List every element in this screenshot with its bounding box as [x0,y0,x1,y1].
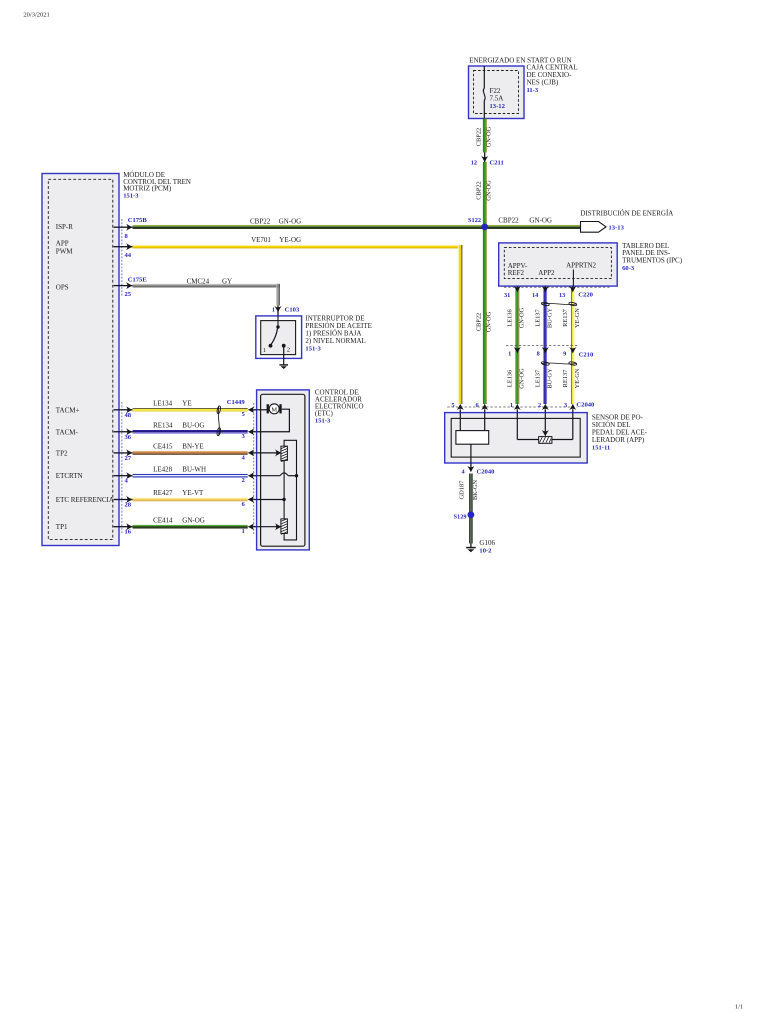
wire CBP22 GN-OG vertical (fuse to S122 to APP pin 6) [475,119,492,405]
potentiometer element TP1 (hatched) [275,519,288,535]
svg-text:3: 3 [564,402,567,409]
IPC box (TABLERO DEL PANEL DE INSTRUMENTOS) [499,242,683,286]
svg-text:G106: G106 [479,539,495,547]
potentiometer element TP2 (hatched) [275,446,288,462]
svg-text:REF2: REF2 [508,269,525,277]
svg-text:LE134: LE134 [153,399,173,407]
svg-text:YE: YE [182,399,191,407]
ETC potentiometer network [257,440,299,540]
twisted pair symbol LE134/RE134 [217,406,222,436]
wire LE136 GN-OG (IPC pin 31 to APP pin 1) [506,286,525,404]
svg-text:C175B: C175B [128,217,148,224]
connector C210 pins 1 8 9 [506,346,594,359]
connector C211 pin 12 [471,153,504,167]
wire GD187 BK-GN (APP pin 4 to ground G106) [459,474,479,544]
svg-text:C2040: C2040 [477,469,496,476]
svg-text:1: 1 [263,347,266,354]
oil pressure switch box (INTERRUPTOR DE PRESION DE ACEITE) [256,315,372,359]
wire CE415 BN-YE (PCM pin 27 to ETC pin 4) [114,443,257,462]
svg-text:GN-OG: GN-OG [182,516,205,524]
svg-text:2: 2 [287,347,290,354]
connector C103 pin 1 [272,306,300,317]
CJB box (CAJA CENTRAL DE CONEXIONES) [469,57,578,119]
svg-text:2: 2 [242,477,245,484]
svg-text:RE137: RE137 [562,308,569,327]
svg-text:BU-GY: BU-GY [546,368,553,389]
svg-text:C175E: C175E [128,277,148,284]
ground below oil pressure switch [279,347,288,369]
switch contacts inside oil pressure switch [263,316,290,354]
svg-text:LE137: LE137 [534,309,541,327]
connector C220 pins 31 14 13 [504,286,612,299]
wire RE427 YE-VT (PCM pin 28 to ETC pin 6) [114,489,257,508]
svg-text:8: 8 [537,351,540,358]
svg-text:36: 36 [125,434,132,441]
svg-text:PWM: PWM [56,247,74,255]
svg-text:CBP22: CBP22 [475,128,482,146]
twisted pair below C220 [541,302,577,307]
svg-text:GN-OG: GN-OG [486,180,493,201]
svg-text:ISP-R: ISP-R [56,223,73,231]
svg-text:151-11: 151-11 [592,444,610,451]
motor M inside ETC [257,404,290,432]
svg-text:13-13: 13-13 [609,224,625,231]
connector C2040 pin 4 [461,463,495,476]
connector C2040 pins 5 6 1 2 3 [447,402,595,413]
svg-text:BK-GN: BK-GN [472,480,479,501]
svg-text:14: 14 [532,292,539,299]
svg-text:C1449: C1449 [227,399,246,406]
svg-text:APPRTN2: APPRTN2 [566,262,596,270]
svg-text:151-3: 151-3 [315,418,331,425]
wire LE137 BU-GY (IPC pin 14 to APP pin 2) [534,286,553,404]
svg-text:C103: C103 [285,306,300,313]
wire VE701 YE-OG (PCM APP PWM pin 44 to APP pin 5) [114,236,463,404]
svg-text:1: 1 [242,528,245,535]
wire LE428 BU-WH (PCM pin 4 to ETC pin 2) [114,465,257,484]
svg-text:CBP22: CBP22 [475,181,482,199]
svg-text:YE-OG: YE-OG [279,236,301,244]
svg-text:TP1: TP1 [56,523,68,531]
svg-text:LERADOR (APP): LERADOR (APP) [592,436,645,444]
svg-text:YE-VT: YE-VT [182,489,204,497]
svg-text:LE137: LE137 [534,369,541,387]
wire RE137 YE-GN (IPC pin 13 to APP pin 3) [562,286,581,404]
wire CMC24 GY (PCM OPS pin 25 to oil pressure switch) [114,277,280,306]
svg-text:YE-GN: YE-GN [574,368,581,388]
svg-text:TRUMENTOS (IPC): TRUMENTOS (IPC) [622,257,683,265]
svg-text:YE-GN: YE-GN [574,308,581,328]
twisted pair below C210 [541,361,577,366]
svg-text:2) NIVEL NORMAL: 2) NIVEL NORMAL [305,337,365,345]
svg-text:GN-OG: GN-OG [486,126,493,147]
svg-text:LE136: LE136 [506,370,513,387]
svg-text:5: 5 [242,411,245,418]
svg-text:ETC REFERENCIA: ETC REFERENCIA [56,496,114,504]
ground G106 [466,539,495,555]
wire CE414 GN-OG (PCM pin 16 to ETC pin 1) [114,516,257,535]
svg-text:C210: C210 [579,352,594,359]
svg-text:BN-YE: BN-YE [182,443,203,451]
svg-text:GD187: GD187 [459,480,466,500]
svg-text:DISTRIBUCIÓN DE ENERGÍA: DISTRIBUCIÓN DE ENERGÍA [580,210,673,218]
wire LE134 YE (PCM pin 48 to ETC pin 5) [114,399,257,418]
svg-text:10-2: 10-2 [479,548,492,555]
svg-text:3: 3 [242,433,245,440]
svg-text:9: 9 [563,351,566,358]
svg-text:TACM+: TACM+ [56,406,80,414]
svg-text:RE137: RE137 [562,369,569,388]
svg-text:25: 25 [125,291,132,298]
svg-text:13-12: 13-12 [490,103,506,110]
svg-text:12: 12 [471,159,477,166]
svg-text:TACM-: TACM- [56,428,79,436]
svg-text:CBP22: CBP22 [250,217,271,225]
svg-text:C211: C211 [490,159,504,166]
PCM pin labels [56,223,114,531]
PCM module box (MODULO DE CONTROL DEL TREN MOTRIZ) [42,171,191,546]
svg-text:CE414: CE414 [153,516,173,524]
svg-text:GN-OG: GN-OG [279,217,302,225]
svg-text:28: 28 [125,502,132,509]
svg-text:RE427: RE427 [153,489,173,497]
svg-text:20/3/2021: 20/3/2021 [23,12,49,19]
svg-text:VE701: VE701 [251,236,271,244]
svg-text:M: M [271,406,277,413]
svg-text:5: 5 [451,402,454,409]
svg-text:GN-OG: GN-OG [518,368,525,389]
APP hall element block [456,413,489,463]
svg-text:6: 6 [242,501,245,508]
svg-text:BU-OG: BU-OG [182,421,204,429]
svg-text:C220: C220 [578,291,593,298]
svg-text:1: 1 [272,306,275,313]
svg-text:S122: S122 [468,217,481,224]
svg-text:CMC24: CMC24 [187,277,210,285]
svg-text:6: 6 [475,402,478,409]
svg-text:OPS: OPS [56,284,69,292]
svg-text:APP2: APP2 [538,269,555,277]
svg-text:CBP22: CBP22 [498,216,519,224]
PCM connector dashed line C175 [121,219,123,534]
svg-text:27: 27 [125,455,132,462]
svg-text:2: 2 [538,402,541,409]
svg-text:LE136: LE136 [506,309,513,326]
svg-text:13: 13 [559,292,565,299]
svg-text:44: 44 [125,252,132,259]
svg-text:BU-WH: BU-WH [182,465,206,473]
svg-text:NES (CJB): NES (CJB) [527,79,559,87]
svg-text:CBP22: CBP22 [475,313,482,331]
connector C1449 label and ETC dashed connector line [227,399,254,534]
wire CBP22 GN-OG horizontal (PCM ISP-R pin 8 to S122 to 13-13) [114,216,582,240]
svg-text:31: 31 [504,292,510,299]
svg-text:GN-OG: GN-OG [486,311,493,332]
splice S122 [468,217,488,230]
svg-text:LE428: LE428 [153,465,173,473]
svg-text:CE415: CE415 [153,443,173,451]
svg-text:151-3: 151-3 [305,346,321,353]
svg-text:GN-OG: GN-OG [529,216,552,224]
fuse F22 7.5A [483,66,505,119]
svg-text:(ETC): (ETC) [315,410,334,418]
power distribution off-page arrow 13-13 [580,210,673,233]
svg-text:BU-GY: BU-GY [546,308,553,329]
wire RE134 BU-OG (PCM pin 36 to ETC pin 3) [114,421,257,440]
svg-text:RE134: RE134 [153,421,173,429]
svg-text:ETCRTN: ETCRTN [56,472,83,480]
svg-text:TP2: TP2 [56,449,68,457]
APP potentiometer element [517,413,573,444]
svg-text:7.5A: 7.5A [490,94,504,102]
svg-text:60-3: 60-3 [622,265,635,272]
svg-text:11-3: 11-3 [527,87,539,94]
svg-text:48: 48 [125,412,132,419]
svg-text:1: 1 [508,351,511,358]
svg-text:GY: GY [222,277,232,285]
svg-text:S129: S129 [454,513,467,520]
svg-text:GN-OG: GN-OG [518,307,525,328]
ETC box (CONTROL DE ACELERADOR ELECTRONICO) [257,389,364,550]
splice S129 [454,511,475,520]
svg-text:1: 1 [510,402,513,409]
svg-text:151-3: 151-3 [123,193,139,200]
svg-text:MOTRIZ (PCM): MOTRIZ (PCM) [123,185,172,193]
svg-text:1/1: 1/1 [735,1004,743,1011]
svg-text:C2040: C2040 [576,402,595,409]
svg-text:16: 16 [125,529,132,536]
APP box (SENSOR DE POSICION DEL PEDAL DEL ACELERADOR) [445,413,648,463]
